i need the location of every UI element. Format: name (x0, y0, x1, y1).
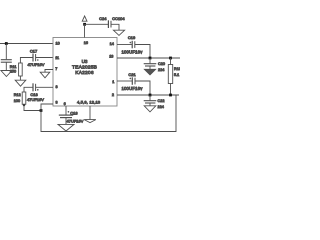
resistor R11 (19, 63, 23, 76)
svg-text:8: 8 (56, 85, 58, 89)
svg-text:C19: C19 (128, 35, 136, 40)
wire: pin 8 to C16 (36, 86, 53, 88)
ground (C20) (144, 69, 155, 75)
wire: pin 13 output rail (117, 57, 180, 59)
node: VCC junction (83, 23, 86, 26)
svg-text:100: 100 (14, 99, 20, 103)
wire: C16 left to R12 top (24, 87, 33, 92)
svg-text:C21: C21 (128, 72, 136, 77)
IC U3 TEA2025B KA2206 (53, 38, 117, 107)
svg-text:3: 3 (56, 101, 58, 105)
wire: pin 2 output rail (117, 94, 179, 96)
svg-text:C18: C18 (70, 111, 78, 116)
capacitor C24 CC104 (107, 20, 109, 28)
svg-text:10: 10 (56, 41, 60, 45)
capacitor C19 (131, 41, 133, 49)
svg-text:R13: R13 (174, 67, 180, 71)
capacitor C18 (supply filter) (59, 114, 73, 116)
wire: C24 to ground (111, 24, 119, 30)
svg-text:C24: C24 (99, 16, 107, 21)
svg-text:C20: C20 (158, 62, 165, 66)
wire: junction to C22 (149, 95, 151, 100)
ground (R11) (15, 80, 26, 86)
ground (pin 7) (40, 72, 50, 78)
svg-text:11: 11 (55, 56, 59, 60)
wire: C17 to pin 11 (36, 57, 53, 59)
svg-text:47UF16V: 47UF16V (27, 97, 44, 102)
capacitor C17 (32, 54, 34, 62)
capacitor (input, unlabeled) (1, 59, 12, 61)
wire: junction to C20 (149, 58, 151, 63)
ground (C18) (58, 124, 74, 131)
capacitor C22 (144, 100, 157, 102)
svg-text:150: 150 (10, 70, 16, 74)
wire: pin 14 to C19 (117, 44, 132, 46)
svg-text:U3: U3 (82, 59, 88, 64)
wire: input capacitor to ground (5, 62, 7, 70)
svg-text:C22: C22 (158, 99, 165, 103)
ground (C22) (144, 106, 156, 112)
wire: junction down to input capacitor (5, 44, 7, 60)
wire: junction down to bottom return rail (41, 95, 176, 132)
svg-text:6: 6 (64, 102, 66, 106)
svg-text:16: 16 (84, 41, 88, 45)
ground (input capacitor) (1, 71, 12, 77)
ground (C24) (113, 30, 124, 35)
wire: C19 down to pin13 rail (135, 45, 150, 59)
svg-text:R11: R11 (10, 65, 17, 69)
wire: C20 to ground (149, 66, 151, 69)
wire: R11 top to C17 (20, 58, 32, 64)
svg-text:100UF16v: 100UF16v (121, 86, 143, 91)
node: C22 junction (149, 94, 152, 97)
svg-text:C17: C17 (30, 49, 38, 54)
resistor R13 (170, 58, 172, 65)
capacitor C20 (144, 63, 157, 65)
capacitor C21 (131, 77, 133, 85)
svg-text:100UF16v: 100UF16v (121, 49, 143, 54)
node: junction on pin10 rail (5, 42, 8, 45)
svg-text:47UF16V: 47UF16V (67, 119, 84, 124)
node: R13 top junction (169, 57, 172, 60)
power VCC symbol (82, 16, 87, 21)
svg-text:224: 224 (158, 105, 164, 109)
wire: C21 down to pin2 rail (135, 81, 150, 95)
wire: VCC to pin 16 (84, 24, 86, 37)
capacitor C16 (32, 83, 34, 91)
svg-text:KA2206: KA2206 (75, 70, 94, 76)
svg-text:1: 1 (112, 80, 114, 84)
svg-text:224: 224 (158, 68, 164, 72)
svg-text:7: 7 (55, 67, 57, 71)
wire: input rail to pin 10 (0, 43, 53, 45)
wire: R12 bottom to feedback junction (24, 104, 41, 110)
wire: R11 to ground (19, 76, 21, 80)
node: R13 bottom junction (169, 94, 172, 97)
node: R12 bottom terminal (23, 104, 25, 106)
node: C20 junction (149, 57, 152, 60)
wire: VCC to C24 (85, 23, 109, 25)
svg-text:2: 2 (112, 93, 114, 97)
ground (pins 4,5,9,12,13) (84, 120, 96, 123)
wire: C22 to ground (149, 103, 151, 106)
wire: junction up to pin 3 (41, 104, 53, 111)
svg-text:TEA2025B: TEA2025B (72, 64, 97, 70)
wire: pin 6 to C18 (65, 106, 67, 115)
svg-text:13: 13 (109, 55, 113, 59)
svg-text:R12: R12 (14, 93, 21, 97)
svg-text:14: 14 (110, 42, 114, 46)
svg-text:5.1: 5.1 (174, 73, 179, 77)
wire: C18 to ground (65, 118, 67, 125)
wire: pin 1 to C21 (117, 80, 132, 82)
wire: pin 7 to ground (45, 70, 53, 73)
svg-text:47UF16V: 47UF16V (28, 62, 45, 67)
svg-text:CC104: CC104 (112, 16, 125, 21)
wire: pins 4,5,9,12,13 to ground (89, 106, 91, 119)
svg-text:4,5,9, 12,13: 4,5,9, 12,13 (77, 100, 101, 105)
resistor R12 (22, 92, 26, 104)
node: feedback junction (40, 109, 43, 112)
